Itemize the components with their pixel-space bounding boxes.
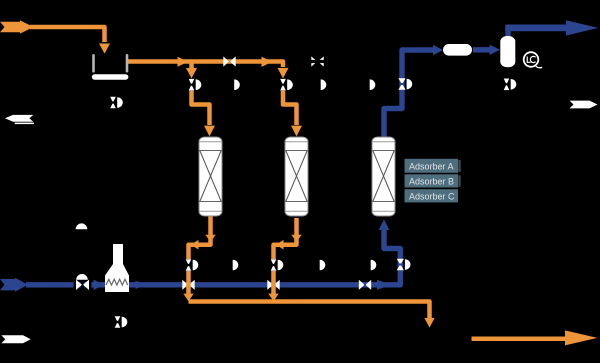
- svg-text:Adsorber B: Adsorber B: [409, 176, 454, 186]
- svg-text:Adsorber C: Adsorber C: [409, 191, 455, 201]
- svg-text:Adsorber A: Adsorber A: [409, 161, 454, 171]
